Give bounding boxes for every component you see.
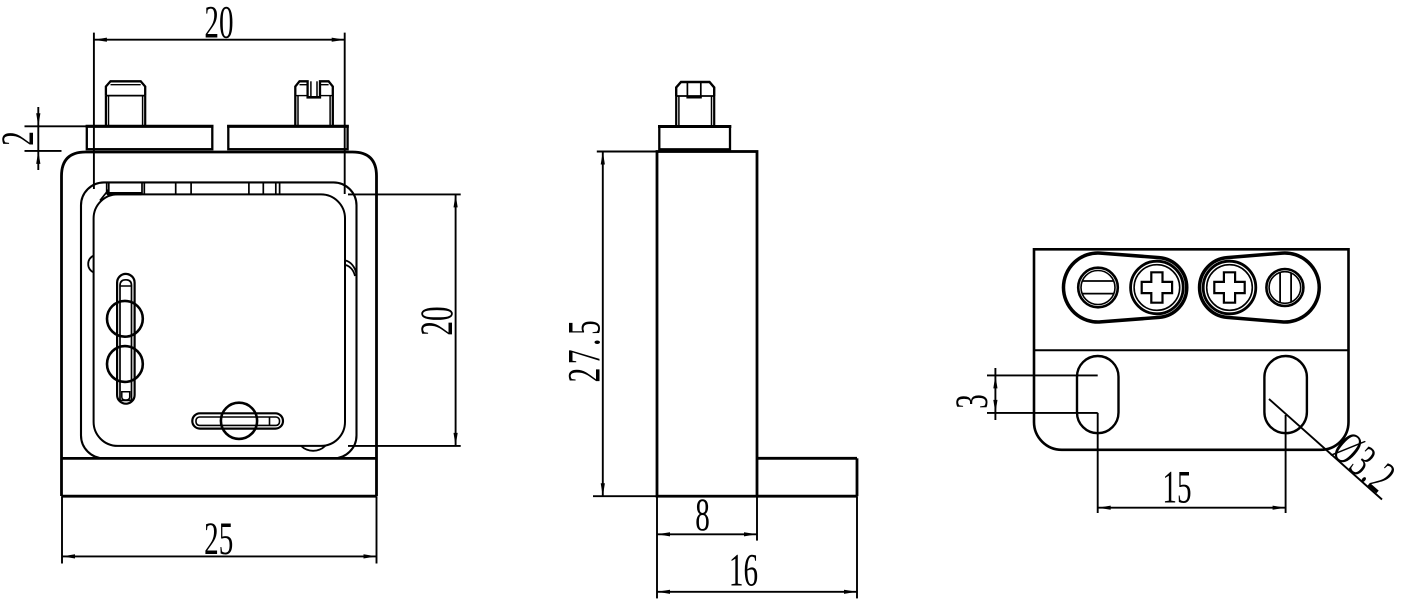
bottom view: separator line bbox=[1034, 349, 1349, 351]
dimension 2 left: arrows bbox=[36, 113, 40, 126]
svg-text:27.5: 27.5 bbox=[559, 317, 611, 383]
svg-text:20: 20 bbox=[204, 0, 233, 49]
front view: circle 2 on slot bbox=[107, 346, 143, 382]
side view: flange top line bbox=[757, 457, 857, 460]
dimension 20 right: arrows bbox=[454, 194, 458, 207]
front view: vertical slot inner top line bbox=[120, 285, 132, 287]
bottom view: screw 3 phillips cross bbox=[1214, 272, 1244, 302]
front view: circle 1 on slot bbox=[107, 301, 143, 337]
dimension 20 top: arrows bbox=[94, 38, 107, 42]
dimension 15: extension lines bbox=[1098, 413, 1286, 513]
svg-text:16: 16 bbox=[729, 544, 758, 596]
side view: terminal pin notch bottom bold bbox=[686, 96, 701, 98]
dimension 2 left: dimension line bbox=[37, 107, 39, 170]
svg-text:2: 2 bbox=[0, 131, 44, 146]
front view: bump arc below inner bottom edge bbox=[301, 446, 325, 451]
side view: flange bottom line bbox=[757, 495, 857, 498]
bottom view: screw 4 slot lines bbox=[1280, 273, 1291, 303]
front view: flange top line bbox=[62, 457, 377, 460]
leader text diameter 3.2 bbox=[1323, 422, 1402, 504]
front view: left terminal pin cap bbox=[106, 81, 145, 95]
dimension 25 bottom: dimension line bbox=[62, 555, 377, 557]
bottom view: screw 4 slotted outer bbox=[1266, 269, 1303, 306]
side view: terminal pin cap bbox=[676, 82, 714, 96]
dimension 27.5: text bbox=[559, 317, 611, 383]
dimension 2 left: extension lines bbox=[25, 126, 87, 151]
dimension 16: arrows bbox=[657, 590, 670, 594]
dimension 15: dimension line bbox=[1098, 507, 1286, 509]
dimension 8: left extension line shared bbox=[656, 496, 658, 598]
svg-text:15: 15 bbox=[1162, 461, 1191, 513]
front view: cap plate left block bbox=[87, 126, 213, 149]
bottom view: mounting slot right bbox=[1264, 356, 1307, 433]
front view: cap plate left block bold top edge bbox=[86, 125, 214, 128]
bottom view: outer outline bbox=[1034, 249, 1349, 449]
front view: shell front face bbox=[81, 182, 357, 458]
dimension 3: extension lines bbox=[987, 375, 1098, 413]
dimension 16: text bbox=[729, 544, 758, 596]
front view: left terminal pin body inner lines bbox=[109, 96, 143, 127]
side view: body rectangle bbox=[657, 152, 757, 497]
bottom view: screw 1 slotted outer bbox=[1078, 268, 1118, 308]
svg-text:20: 20 bbox=[411, 306, 463, 335]
front view: circle on horizontal slot bbox=[221, 403, 257, 439]
bottom view: screw 4 inner circle bbox=[1269, 272, 1301, 304]
dimension 25 bottom: arrows bbox=[62, 554, 75, 558]
dimension 20 top: extension lines bbox=[94, 33, 345, 194]
side view: flange right edge bbox=[856, 458, 859, 496]
dimension 20 right: text bbox=[411, 306, 463, 335]
front view: flange bottom line bbox=[62, 495, 377, 498]
front view: outer shell body bbox=[62, 152, 377, 496]
front view: cap plate right block bbox=[228, 126, 347, 149]
bottom view: peanut boss left bbox=[1063, 253, 1186, 322]
dimension 15: arrows bbox=[1098, 506, 1111, 510]
dimension 27.5: dimension line bbox=[602, 152, 604, 497]
dimension 27.5: extension lines bbox=[593, 152, 657, 497]
dimension 16: dimension line bbox=[657, 591, 857, 593]
leader line diameter 3.2 bbox=[1269, 399, 1382, 500]
front view: top band tick marks bbox=[107, 182, 280, 196]
dimension 20 right: extension lines bbox=[348, 194, 461, 446]
bottom view: screw 1 slot lines bbox=[1082, 281, 1113, 294]
front view: right terminal pin body inner lines bbox=[298, 96, 330, 127]
side view: terminal pin cap bottom line bbox=[676, 95, 714, 97]
bottom view: screw 3 inner circle bbox=[1207, 265, 1253, 311]
dimension 16: extension line bbox=[856, 496, 858, 598]
front view: horizontal slot outer bbox=[192, 413, 283, 428]
side view: terminal pin body inner lines bbox=[679, 96, 712, 127]
front view: right terminal fork inner notch lines bbox=[311, 81, 317, 97]
svg-text:8: 8 bbox=[695, 489, 710, 541]
svg-text:25: 25 bbox=[204, 513, 233, 565]
bottom view: screw 3 phillips outer bbox=[1203, 261, 1256, 314]
bottom view: screw 2 phillips outer bbox=[1131, 261, 1184, 314]
front view: vertical slot inner bbox=[120, 280, 132, 401]
dimension 25 bottom: extension lines bbox=[62, 496, 377, 563]
front view: double arc detail upper right bbox=[346, 261, 357, 277]
bottom view: screw 2 inner circle bbox=[1134, 265, 1180, 311]
front view: vertical slot outer bbox=[117, 274, 135, 404]
front view: right terminal pin cap lines bbox=[295, 85, 333, 96]
dimension 15: text bbox=[1162, 461, 1191, 513]
front view: left terminal pin body bbox=[106, 96, 145, 127]
front view: left terminal pin cap inner line bbox=[111, 84, 141, 86]
front view: band bottom bold segment under left pin bbox=[107, 192, 142, 195]
dimension 27.5: arrows bbox=[601, 152, 605, 165]
front view: right terminal fork pin outline bbox=[295, 81, 333, 126]
bottom view: screw 2 phillips cross bbox=[1142, 272, 1172, 302]
dimension 3: dimension line bbox=[994, 368, 996, 420]
front view: inner face opening bbox=[94, 194, 345, 446]
front view: band left corner wedge lines bbox=[100, 190, 109, 201]
front view: left terminal pin cap bottom line bbox=[106, 95, 145, 97]
front view: horizontal slot inner end line bbox=[269, 417, 271, 426]
front view: cap plate right block bold top edge bbox=[227, 125, 349, 128]
side view: cap block bbox=[659, 127, 730, 150]
side view: cap block bold top edge bbox=[658, 125, 731, 128]
dimension 8: dimension line bbox=[657, 533, 757, 535]
bottom view: mounting slot left bbox=[1077, 356, 1119, 433]
front view: horizontal slot inner bbox=[196, 417, 280, 425]
dimension 3: arrows bbox=[993, 375, 997, 388]
dimension 3: text bbox=[946, 394, 998, 409]
dimension 25 bottom: text bbox=[204, 513, 233, 565]
svg-text:3: 3 bbox=[946, 394, 998, 409]
bottom view: peanut boss right bbox=[1200, 253, 1320, 322]
side view: terminal pin notch bbox=[687, 82, 700, 97]
dimension 8: arrows bbox=[657, 532, 670, 536]
side view: terminal pin body sides bbox=[676, 96, 714, 127]
dimension 20 right: dimension line bbox=[455, 194, 457, 446]
dimension 20 top: text bbox=[204, 0, 233, 49]
dimension 8: extension line bbox=[756, 496, 758, 540]
front view: small bump arc on left inner edge bbox=[88, 256, 93, 273]
front view: vertical slot bottom end rect bbox=[122, 392, 130, 400]
dimension 20 top: dimension line bbox=[94, 39, 345, 41]
bottom view: screw 1 inner circle bbox=[1081, 271, 1115, 305]
dimension 8: text bbox=[695, 489, 710, 541]
dimension 2 left: text bbox=[0, 131, 44, 146]
front view: right terminal fork notch bottom bold bbox=[307, 96, 322, 99]
